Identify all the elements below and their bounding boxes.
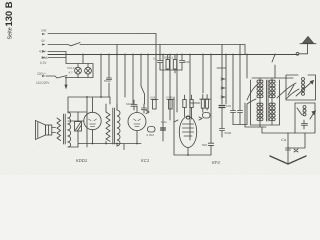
svg-text:220V~: 220V~	[37, 72, 46, 76]
svg-text:5000: 5000	[184, 60, 191, 64]
svg-text:6,3V: 6,3V	[40, 61, 47, 65]
svg-text:0,M1: 0,M1	[150, 96, 157, 100]
svg-text:Ca: Ca	[281, 137, 287, 142]
svg-text:0,002: 0,002	[147, 133, 155, 137]
svg-text:110/220V: 110/220V	[36, 81, 50, 85]
svg-text:5000: 5000	[104, 79, 111, 83]
svg-text:Seite: Seite	[8, 27, 14, 39]
svg-text:und: und	[41, 29, 47, 33]
svg-text:KF4: KF4	[212, 160, 220, 165]
svg-text:500: 500	[202, 143, 207, 147]
svg-text:0,1: 0,1	[153, 57, 158, 61]
svg-text:100: 100	[226, 104, 231, 108]
svg-text:M41: M41	[161, 120, 167, 124]
svg-text:M47: M47	[126, 102, 132, 106]
svg-text:50+0,1: 50+0,1	[164, 56, 174, 60]
svg-text:4,7: 4,7	[69, 71, 74, 75]
svg-text:KDD1: KDD1	[76, 158, 87, 163]
svg-text:130 B: 130 B	[3, 1, 14, 26]
svg-text:KC1: KC1	[141, 158, 149, 163]
svg-text:0,M5: 0,M5	[166, 96, 173, 100]
svg-text:5000: 5000	[225, 131, 232, 135]
svg-text:VCL11: VCL11	[67, 66, 76, 70]
